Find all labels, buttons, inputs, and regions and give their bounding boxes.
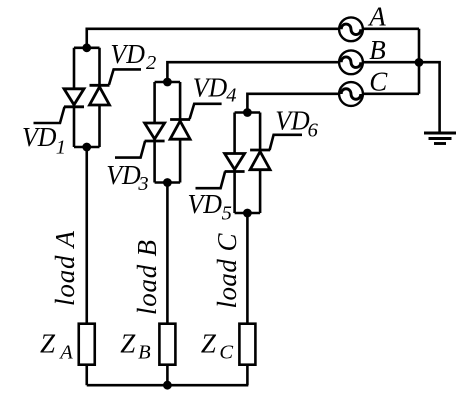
AC source C <box>339 82 363 106</box>
svg-text:Z: Z <box>40 329 56 359</box>
pair 3 top rail <box>235 111 261 114</box>
node pair2 top <box>163 78 172 87</box>
thyristor VD3 <box>115 123 165 158</box>
wire load B <box>166 183 169 324</box>
ground <box>424 133 456 144</box>
svg-text:VD: VD <box>110 39 145 69</box>
node pair2 bottom <box>163 178 172 187</box>
svg-text:VD: VD <box>193 73 228 103</box>
svg-text:B: B <box>369 35 386 65</box>
wire bus vertical <box>418 29 421 94</box>
svg-text:load B: load B <box>132 240 162 315</box>
svg-text:5: 5 <box>222 203 232 225</box>
svg-text:VD: VD <box>22 122 57 152</box>
svg-text:Z: Z <box>201 329 217 359</box>
wire bottom neutral rail <box>87 384 249 387</box>
svg-text:load C: load C <box>212 233 242 309</box>
thyristor VD1 <box>34 89 85 123</box>
wire Z_C to rail <box>246 365 249 386</box>
svg-text:6: 6 <box>308 119 319 141</box>
svg-text:C: C <box>369 67 388 97</box>
thyristor VD5 <box>196 154 245 189</box>
impedance Z_B box <box>159 324 175 365</box>
impedance Z_C box <box>239 324 255 365</box>
svg-text:1: 1 <box>56 137 66 159</box>
AC source A <box>339 17 363 41</box>
node pair3 top <box>243 108 252 117</box>
wire phase C source to bus <box>363 93 419 96</box>
pair 2 top rail <box>155 81 181 84</box>
svg-text:B: B <box>138 341 151 363</box>
node pair3 bottom <box>243 209 252 218</box>
wire phase C from pair 3 top to source C <box>247 94 339 113</box>
thyristor VD4 <box>170 104 222 139</box>
AC source B <box>339 50 363 74</box>
wire Z_B to rail <box>166 365 169 386</box>
svg-text:3: 3 <box>137 173 148 195</box>
node pair1 top <box>82 43 91 52</box>
svg-text:load A: load A <box>50 231 80 307</box>
wire Z_A to rail <box>85 365 88 386</box>
pair 3 left branch wire <box>233 113 236 214</box>
wire phase A from pair 1 top to source A <box>87 29 339 48</box>
pair 2 left branch wire <box>153 82 156 183</box>
node bus-B junction <box>415 58 424 67</box>
svg-text:A: A <box>367 2 386 32</box>
node pair1 bottom <box>82 143 91 152</box>
svg-text:VD: VD <box>275 106 310 136</box>
pair 2 right branch wire <box>179 82 182 183</box>
pair 1 left branch wire <box>73 48 76 147</box>
svg-text:C: C <box>219 341 233 363</box>
node neutral junction <box>163 381 172 390</box>
pair 3 bottom rail <box>235 212 261 215</box>
pair 1 top rail <box>74 46 100 49</box>
wire load C <box>246 213 249 324</box>
pair 1 right branch wire <box>98 48 101 147</box>
thyristor VD2 <box>90 69 142 105</box>
thyristor VD6 <box>250 135 302 170</box>
pair 1 bottom rail <box>74 146 100 149</box>
pair 2 bottom rail <box>155 181 181 184</box>
wire phase B from pair 2 top to source B <box>167 62 339 82</box>
svg-text:Z: Z <box>120 329 136 359</box>
svg-text:VD: VD <box>106 160 141 190</box>
svg-text:VD: VD <box>188 189 223 219</box>
svg-text:4: 4 <box>226 85 236 107</box>
svg-text:2: 2 <box>146 52 156 74</box>
pair 3 right branch wire <box>259 113 262 214</box>
svg-text:A: A <box>58 341 73 363</box>
wire phase A source to bus <box>363 27 419 30</box>
wire load A <box>85 147 88 324</box>
impedance Z_A box <box>79 324 95 365</box>
wire phase B source to ground corner <box>363 62 440 133</box>
